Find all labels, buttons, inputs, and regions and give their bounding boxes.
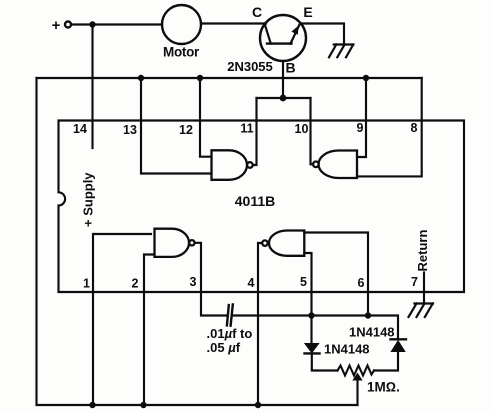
svg-text:5: 5 [300, 275, 307, 289]
svg-text:8: 8 [411, 121, 418, 135]
svg-text:.01µf to: .01µf to [207, 326, 253, 341]
wire supply resume to gate C input and pin1 down [93, 234, 151, 405]
wire top rail [37, 77, 422, 79]
wire pin11 gate A output to bar [253, 98, 257, 165]
svg-text:1N4148: 1N4148 [349, 325, 395, 340]
svg-text:11: 11 [240, 122, 253, 136]
wire pin5 gate D input down to diode [304, 253, 311, 316]
NAND gate D (pins 5,6 -> 4) mirrored [262, 231, 304, 256]
wire base (transistor to bar) [282, 61, 284, 98]
wire pin8 to gate B input [357, 78, 422, 176]
wire cap to right (timing line) [233, 316, 399, 340]
svg-text:12: 12 [179, 123, 193, 137]
wire motor to collector [201, 22, 266, 24]
svg-text:2N3055: 2N3055 [227, 59, 273, 74]
terminal + (battery positive) [52, 17, 71, 34]
junction dot base bar [280, 95, 287, 102]
svg-text:9: 9 [357, 121, 364, 135]
svg-text:10: 10 [295, 122, 309, 136]
capacitor C1 plates [227, 305, 233, 326]
pin numbers bottom row [83, 275, 418, 291]
wire outer left loop [37, 78, 358, 405]
svg-text:6: 6 [358, 276, 365, 290]
pin numbers top row [73, 121, 417, 137]
motor M1 [162, 5, 201, 60]
svg-text:E: E [303, 4, 312, 20]
junction dot pin5 timing line [308, 312, 314, 318]
svg-text:C: C [252, 4, 262, 20]
svg-text:+ Supply: + Supply [81, 172, 96, 227]
svg-text:Return: Return [415, 230, 430, 272]
junction dot pin12 rail [197, 75, 203, 81]
ground chassis (emitter) [329, 45, 353, 58]
IC U1 4011B outline [59, 121, 465, 293]
wire pin10 gate B output to bar [311, 98, 314, 164]
svg-text:1N4148: 1N4148 [324, 342, 370, 357]
NAND gate C (pins 1,2 -> 3) [155, 229, 195, 257]
diode D2 1N4148 (right, pointing up) [374, 339, 406, 370]
wire pin6 gate D input down to timing line [304, 233, 368, 316]
svg-text:4: 4 [248, 276, 255, 290]
svg-text:.05 µf: .05 µf [207, 340, 241, 355]
junction dot bottom rail pin4 [255, 402, 261, 408]
transistor Q1 2N3055 [260, 15, 306, 61]
svg-text:2: 2 [132, 277, 139, 291]
junction dot supply tap [89, 21, 95, 27]
wire pin13 to gate A input [141, 78, 212, 174]
wire pin7 to ground [423, 273, 425, 304]
svg-text:7: 7 [411, 275, 418, 289]
svg-text:B: B [285, 60, 295, 76]
wire pin3 gate C output down to cap [195, 243, 227, 316]
junction dot bottom rail pin1 [89, 402, 95, 408]
junction dot bottom rail pin2 [140, 402, 146, 408]
label .01uf to .05uf [207, 326, 253, 355]
junction dot pin6 timing line [365, 312, 371, 318]
wire pin2 gate C input down [144, 255, 155, 406]
svg-text:13: 13 [123, 123, 137, 137]
wire pin12 to gate A input [200, 78, 212, 157]
svg-text:3: 3 [190, 275, 197, 289]
svg-text:1: 1 [83, 277, 90, 291]
wire pin9 to gate B input [357, 78, 366, 157]
wire pin14 supply [91, 25, 93, 149]
NAND gate B (pins 8,9 -> 10) mirrored [313, 151, 357, 179]
svg-text:+: + [52, 17, 61, 34]
wire emitter to ground [301, 24, 344, 45]
svg-text:14: 14 [73, 122, 87, 136]
wire base bar [257, 97, 311, 99]
junction dot pin13 rail [138, 75, 144, 81]
ground chassis (pin 7 return) [409, 304, 434, 318]
junction dot pin9 rail [363, 75, 369, 81]
wire pin4 gate D output down [258, 243, 262, 405]
svg-text:1MΩ.: 1MΩ. [367, 380, 400, 395]
svg-text:4011B: 4011B [235, 193, 275, 209]
diode D1 1N4148 (left, pointing down) [305, 316, 338, 371]
resistor R1 potentiometer 1M [338, 366, 375, 406]
wire + terminal to motor [72, 23, 163, 25]
NAND gate A (pins 12,13 -> 11) [212, 150, 253, 180]
svg-text:Motor: Motor [163, 45, 200, 60]
